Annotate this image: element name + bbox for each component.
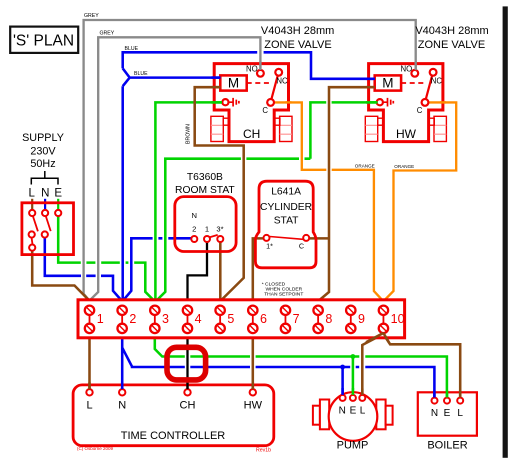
wire brown terminal 6 to time controller HW xyxy=(252,338,255,389)
pump terminal N xyxy=(340,395,346,401)
wire blue into CH valve M xyxy=(212,76,221,79)
wire orange out of HW valve C xyxy=(440,101,446,103)
svg-text:L: L xyxy=(86,400,92,412)
wire blue pump N drop xyxy=(341,367,344,395)
terminal circle supply L top xyxy=(29,210,35,216)
svg-text:E: E xyxy=(350,406,357,417)
wire brown cylinder stat C stub xyxy=(309,237,329,240)
wire brown CH valve motor live to terminal 5 xyxy=(195,87,244,300)
cylinder stat terminal C xyxy=(303,235,309,241)
pump terminal E xyxy=(350,395,356,401)
svg-text:HW: HW xyxy=(244,400,263,412)
zone valve HW (V4043H) xyxy=(365,64,446,142)
wire green into boiler E xyxy=(446,391,449,398)
wire grey bus from CH zone valve NO to terminal 1 xyxy=(90,37,261,300)
wire brown supply L stub xyxy=(31,199,33,210)
room stat terminal 3 xyxy=(217,236,223,242)
pump body circle xyxy=(329,392,378,441)
svg-text:L: L xyxy=(457,408,463,419)
terminal 1 xyxy=(85,306,104,334)
room stat terminal 2 xyxy=(191,236,197,242)
wire blue into time controller N xyxy=(121,383,124,390)
wire brown into pump L xyxy=(361,389,364,395)
wire brown terminal 10 to boiler L xyxy=(383,334,460,398)
terminal circle supply E top xyxy=(55,210,61,216)
wire brown into CH valve M xyxy=(212,86,221,89)
wire brown into time controller HW xyxy=(252,383,255,390)
wire orange HW valve C to terminal 10 xyxy=(384,102,456,300)
svg-text:CH: CH xyxy=(180,400,196,412)
svg-text:L641A: L641A xyxy=(271,186,301,197)
time controller terminal HW xyxy=(250,389,256,395)
terminal 6 xyxy=(248,306,267,334)
wire blue room stat N to terminal 2 xyxy=(123,238,191,300)
highlight marker around CH link xyxy=(167,347,206,380)
wire orange out of CH valve C xyxy=(286,101,292,103)
svg-text:HW: HW xyxy=(396,127,417,141)
switch blade supply L xyxy=(33,216,38,231)
cylinder stat switch blade xyxy=(270,237,303,240)
pump terminal L xyxy=(359,395,365,401)
terminal 5 xyxy=(215,306,234,334)
wire brown into HW valve M xyxy=(366,86,375,89)
terminal circle supply L mid xyxy=(29,231,35,237)
svg-text:BOILER: BOILER xyxy=(427,440,467,452)
wire grey bus from HW zone valve NO to terminal 1 xyxy=(84,20,416,301)
svg-text:9: 9 xyxy=(358,312,365,326)
terminal 3 xyxy=(150,306,169,334)
room stat T6360B xyxy=(175,172,236,251)
svg-text:TIME CONTROLLER: TIME CONTROLLER xyxy=(121,430,226,442)
svg-text:3: 3 xyxy=(162,312,169,326)
pump flange left xyxy=(313,406,320,425)
scan border bar right xyxy=(503,6,508,457)
terminal 8 xyxy=(313,306,332,334)
svg-text:BROWN: BROWN xyxy=(186,124,192,144)
wire blue into boiler N xyxy=(433,391,436,398)
wire green terminal 3 to pump and boiler earth xyxy=(155,338,447,398)
wire black into time controller CH xyxy=(186,383,188,390)
svg-text:1: 1 xyxy=(97,312,104,326)
terminal circle supply N mid xyxy=(42,231,48,237)
svg-text:3*: 3* xyxy=(216,225,223,234)
svg-text:230V: 230V xyxy=(30,145,56,157)
wire grey into CH valve NO xyxy=(259,62,261,71)
junction dot green at pump E xyxy=(351,354,356,359)
supply bracket xyxy=(31,171,58,185)
wire green supply E stub xyxy=(57,199,59,213)
footnote closed when colder xyxy=(262,281,304,297)
svg-text:WHEN COLDER: WHEN COLDER xyxy=(266,287,303,293)
fuse link supply L xyxy=(31,238,34,245)
wire blue neutral to pump and boiler xyxy=(122,348,434,398)
svg-text:BLUE: BLUE xyxy=(134,71,148,77)
svg-text:THAN SETPOINT: THAN SETPOINT xyxy=(264,292,303,298)
terminal 9 xyxy=(346,306,365,334)
junction dot blue at pump N xyxy=(340,365,345,370)
wire supply earth green to terminal 3 xyxy=(58,216,154,300)
supply label xyxy=(22,132,64,200)
svg-text:PUMP: PUMP xyxy=(337,440,369,452)
terminal circle supply L bottom xyxy=(29,245,35,251)
wire blue valve neutrals down to terminal 2 xyxy=(121,86,124,300)
cylinder stat terminal 1 xyxy=(264,235,270,241)
svg-text:2: 2 xyxy=(192,225,196,234)
boiler terminal L xyxy=(457,398,463,404)
wire brown cylinder stat 1 to terminal 6 xyxy=(253,238,264,300)
svg-text:5: 5 xyxy=(227,312,234,326)
boiler xyxy=(418,392,477,451)
svg-text:V4043H 28mm: V4043H 28mm xyxy=(415,25,488,37)
pump xyxy=(313,392,393,451)
svg-text:10: 10 xyxy=(391,312,405,326)
svg-text:V4043H 28mm: V4043H 28mm xyxy=(261,25,334,37)
switch blade supply N xyxy=(46,216,51,231)
svg-text:L: L xyxy=(28,188,35,200)
svg-text:6: 6 xyxy=(260,312,267,326)
time controller terminal CH xyxy=(184,389,190,395)
terminal 10 xyxy=(379,306,405,334)
svg-text:N: N xyxy=(339,406,346,417)
wire brown into boiler L xyxy=(459,391,462,398)
svg-text:STAT: STAT xyxy=(274,215,299,226)
wire brown terminal 1 to time controller L xyxy=(88,338,91,389)
title box 'S' PLAN xyxy=(10,27,78,53)
svg-text:ROOM STAT: ROOM STAT xyxy=(175,185,235,196)
svg-text:8: 8 xyxy=(325,312,332,326)
zone valve CH (V4043H) xyxy=(211,64,292,142)
svg-text:4: 4 xyxy=(195,312,202,326)
svg-text:Rev1b: Rev1b xyxy=(256,448,271,454)
wire blue neutral bus to CH valve motor xyxy=(123,68,221,86)
time controller terminal L xyxy=(86,389,92,395)
cylinder stat L641A xyxy=(255,181,316,268)
svg-text:C: C xyxy=(299,242,304,251)
wire brown terminal 10 to pump L xyxy=(362,334,383,395)
svg-text:2: 2 xyxy=(129,312,136,326)
wire black terminal 4 to time controller CH xyxy=(186,338,188,389)
svg-text:ZONE VALVE: ZONE VALVE xyxy=(264,39,331,51)
svg-text:CYLINDER: CYLINDER xyxy=(260,202,312,213)
boiler terminal E xyxy=(444,398,450,404)
svg-text:* CLOSED: * CLOSED xyxy=(262,281,286,287)
svg-text:L: L xyxy=(360,406,366,417)
svg-text:ZONE VALVE: ZONE VALVE xyxy=(418,39,485,51)
supply isolator box xyxy=(22,203,74,255)
svg-text:BLUE: BLUE xyxy=(125,46,139,52)
terminal circle supply N top xyxy=(42,210,48,216)
svg-text:GREY: GREY xyxy=(100,31,115,37)
svg-text:N: N xyxy=(431,408,438,419)
wire blue terminal 2 to time controller N xyxy=(121,338,124,389)
wire green CH valve earth to terminal 3 xyxy=(155,102,222,300)
svg-text:N: N xyxy=(118,400,126,412)
wire green into pump E xyxy=(352,388,355,395)
terminal 7 xyxy=(281,306,300,334)
wire brown supply live to terminal 1 xyxy=(32,251,89,301)
time controller box xyxy=(73,385,274,446)
wire green HW valve earth to terminal 3 xyxy=(156,102,377,300)
svg-text:T6360B: T6360B xyxy=(187,172,223,183)
wire brown HW valve motor live / cyl stat C to terminal 8 xyxy=(319,87,375,300)
svg-text:CH: CH xyxy=(243,127,260,141)
room stat terminal 1 xyxy=(204,236,210,242)
wire blue supply N stub xyxy=(44,199,46,210)
wire black room stat 1 to terminal 4 xyxy=(188,242,208,300)
svg-text:1: 1 xyxy=(205,225,209,234)
svg-text:7: 7 xyxy=(293,312,300,326)
time controller terminal N xyxy=(119,389,125,395)
wire green into HW valve earth xyxy=(366,101,378,104)
svg-text:'S' PLAN: 'S' PLAN xyxy=(13,33,74,50)
terminal strip block xyxy=(78,300,405,338)
wire overpasses (wires drawn over component borders) xyxy=(90,62,461,398)
wire grey into HW valve NO xyxy=(415,62,417,71)
wire blue into HW valve M xyxy=(366,78,375,81)
boiler terminal N xyxy=(432,398,438,404)
wire brown terminal 10 tail inside strip xyxy=(366,333,389,343)
wire brown into time controller L xyxy=(88,383,91,390)
svg-text:ORANGE: ORANGE xyxy=(394,164,414,169)
svg-text:ORANGE: ORANGE xyxy=(355,164,375,169)
svg-text:50Hz: 50Hz xyxy=(30,158,55,170)
svg-text:GREY: GREY xyxy=(84,13,99,19)
svg-text:SUPPLY: SUPPLY xyxy=(22,132,64,144)
wire blue neutral bus to HW valve motor xyxy=(123,52,375,79)
svg-text:(C) Osborne 2009: (C) Osborne 2009 xyxy=(77,446,114,451)
room stat switch blade xyxy=(210,235,218,237)
terminal 4 xyxy=(183,306,202,334)
svg-text:N: N xyxy=(41,188,49,200)
svg-text:1*: 1* xyxy=(266,242,273,251)
wire brown room stat 3 to terminal 5 xyxy=(219,242,222,300)
svg-text:N: N xyxy=(192,211,197,220)
terminal 2 xyxy=(117,306,136,334)
wire green into CH valve earth xyxy=(212,101,223,104)
wire blue into pump N xyxy=(341,388,344,395)
wire supply neutral to terminal 2 xyxy=(45,238,122,301)
wire green pump E drop xyxy=(352,357,355,395)
pump flange right xyxy=(376,400,385,430)
wire orange CH valve C to terminal 10 xyxy=(274,102,382,300)
svg-text:E: E xyxy=(444,408,451,419)
svg-text:E: E xyxy=(54,188,62,200)
